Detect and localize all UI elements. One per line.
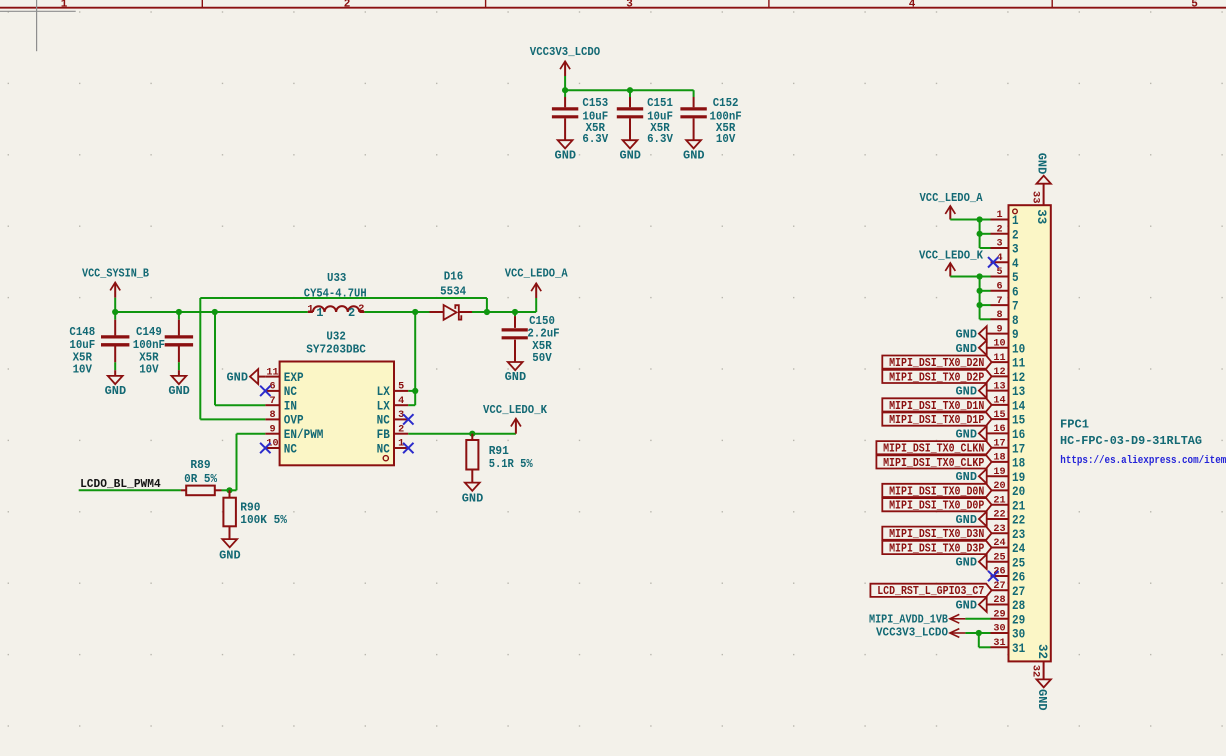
svg-text:16: 16 xyxy=(1012,427,1025,442)
U32 pin 8 OVP (left) xyxy=(265,409,303,428)
global label MIPI_DSI_TX0_D3N at pin 23 xyxy=(882,527,991,542)
junction pin5 xyxy=(977,273,983,279)
svg-text:100K 5%: 100K 5% xyxy=(240,513,287,527)
svg-text:GND: GND xyxy=(956,599,978,613)
svg-text:5: 5 xyxy=(398,381,404,393)
svg-text:22: 22 xyxy=(993,509,1005,521)
svg-text:FB: FB xyxy=(377,427,390,442)
svg-text:9: 9 xyxy=(1012,327,1019,342)
wire U33 to D16 xyxy=(364,311,429,313)
svg-text:13: 13 xyxy=(993,380,1005,392)
svg-text:VCC_SYSIN_B: VCC_SYSIN_B xyxy=(82,266,149,280)
svg-text:OVP: OVP xyxy=(284,413,304,428)
ground flag at pin 33 xyxy=(1035,153,1051,184)
svg-text:GND: GND xyxy=(956,328,978,342)
svg-text:C148: C148 xyxy=(69,325,95,339)
svg-text:7: 7 xyxy=(269,395,275,407)
svg-text:MIPI_DSI_TX0_D0P: MIPI_DSI_TX0_D0P xyxy=(889,500,984,513)
svg-text:VCC_LEDO_A: VCC_LEDO_A xyxy=(505,267,569,281)
FPC1 pin 29 xyxy=(991,609,1026,628)
svg-text:10V: 10V xyxy=(73,363,93,377)
svg-text:GND: GND xyxy=(956,513,978,527)
junction at C153 xyxy=(562,87,568,93)
FPC1 pin 6 xyxy=(991,281,1019,300)
svg-text:GND: GND xyxy=(105,384,127,398)
capacitor C149 xyxy=(133,312,193,377)
svg-text:GND: GND xyxy=(1035,689,1049,711)
svg-text:5534: 5534 xyxy=(440,285,466,298)
ground flag at pin 25 xyxy=(956,554,991,569)
junction pin1 xyxy=(977,216,983,222)
junction pin2 xyxy=(977,231,983,237)
svg-text:R89: R89 xyxy=(190,458,210,472)
svg-text:25: 25 xyxy=(993,551,1005,563)
svg-text:23: 23 xyxy=(993,523,1005,535)
svg-text:3: 3 xyxy=(626,0,633,10)
svg-text:28: 28 xyxy=(993,594,1005,606)
junction at R90 xyxy=(226,487,232,493)
svg-text:2: 2 xyxy=(344,0,351,10)
power symbol VCC_LEDO_A at pin 1 xyxy=(920,191,984,219)
capacitor C151 xyxy=(617,90,674,146)
svg-text:LX: LX xyxy=(377,384,390,399)
no-connect U32 pin 3 xyxy=(403,414,413,424)
svg-text:16: 16 xyxy=(993,423,1005,435)
wire LCDO_BL_PWM4 to R89 xyxy=(79,489,181,491)
FPC1 pin 8 xyxy=(991,309,1019,328)
svg-text:6.3V: 6.3V xyxy=(647,132,674,146)
svg-text:3: 3 xyxy=(1012,242,1019,257)
svg-text:NC: NC xyxy=(284,441,297,456)
FPC1 datasheet url xyxy=(1060,455,1226,467)
ground flag at pin 16 xyxy=(956,426,991,441)
svg-text:VCC3V3_LCDO: VCC3V3_LCDO xyxy=(530,45,600,59)
FPC1 pin 13 xyxy=(991,380,1026,399)
svg-text:1: 1 xyxy=(1012,213,1019,228)
junction at C148 xyxy=(112,309,118,315)
svg-text:MIPI_DSI_TX0_D3P: MIPI_DSI_TX0_D3P xyxy=(889,542,984,555)
svg-text:30: 30 xyxy=(993,623,1005,635)
wire R89 to node xyxy=(222,489,237,491)
wire top capacitor rail xyxy=(565,89,694,91)
wire LX pins to inductor node xyxy=(408,312,415,405)
svg-text:20: 20 xyxy=(993,480,1005,492)
svg-text:C152: C152 xyxy=(713,96,739,110)
U32 pin 11 EXP (left) xyxy=(265,366,303,385)
svg-text:17: 17 xyxy=(993,437,1005,449)
svg-text:MIPI_AVDD_1VB: MIPI_AVDD_1VB xyxy=(869,612,948,626)
power symbol VCC_LEDO_K at pin 5 xyxy=(919,249,984,277)
ground below C152 xyxy=(683,140,705,162)
global label MIPI_DSI_TX0_CLKP at pin 18 xyxy=(876,455,991,470)
ground below R90 xyxy=(219,539,241,562)
U32 pin 5 LX (right) xyxy=(377,381,409,400)
svg-text:VCC_LEDO_K: VCC_LEDO_K xyxy=(919,249,984,263)
svg-text:VCC_LEDO_K: VCC_LEDO_K xyxy=(483,403,548,417)
svg-text:3: 3 xyxy=(996,238,1002,250)
svg-text:11: 11 xyxy=(266,366,278,378)
ground flag at pin 19 xyxy=(956,469,991,484)
FPC1 pin 25 xyxy=(991,551,1026,570)
svg-text:10: 10 xyxy=(1012,341,1025,356)
capacitor C152 xyxy=(680,90,741,146)
FPC1 pin 21 xyxy=(991,494,1026,513)
global label MIPI_DSI_TX0_D0N at pin 20 xyxy=(882,484,991,499)
svg-text:HC-FPC-03-D9-31RLTAG: HC-FPC-03-D9-31RLTAG xyxy=(1060,434,1202,448)
svg-text:12: 12 xyxy=(993,366,1005,378)
U32 pin 10 NC (left) xyxy=(265,438,297,457)
svg-text:21: 21 xyxy=(1012,498,1025,513)
cursor crosshair top-left xyxy=(0,0,76,51)
svg-text:IN: IN xyxy=(284,399,297,414)
svg-text:10: 10 xyxy=(993,338,1005,350)
svg-text:1: 1 xyxy=(996,209,1002,221)
svg-text:LX: LX xyxy=(377,399,390,414)
wire VCC_SYSIN_B to rail xyxy=(114,298,116,312)
power symbol VCC_LEDO_A xyxy=(505,267,569,298)
svg-text:15: 15 xyxy=(1012,413,1025,428)
no-connect U32 pin 10 xyxy=(260,443,270,453)
svg-text:LCD_RST_L_GPIO3_C7: LCD_RST_L_GPIO3_C7 xyxy=(877,585,984,598)
svg-text:21: 21 xyxy=(993,494,1005,506)
FPC1 pin 15 xyxy=(991,409,1026,428)
svg-text:https://es.aliexpress.com/item: https://es.aliexpress.com/item xyxy=(1060,455,1226,467)
wire pin5 bus xyxy=(950,277,990,320)
FPC1 pin 7 xyxy=(991,295,1019,314)
FPC1 pin 31 xyxy=(991,637,1026,656)
svg-text:2: 2 xyxy=(996,224,1002,236)
svg-text:8: 8 xyxy=(1012,313,1019,328)
svg-text:C153: C153 xyxy=(582,96,608,110)
junction pin30 xyxy=(976,630,982,636)
svg-text:27: 27 xyxy=(993,580,1005,592)
FPC1 pin 24 xyxy=(991,537,1026,556)
svg-text:10V: 10V xyxy=(716,132,736,146)
svg-text:GND: GND xyxy=(505,370,527,384)
FPC1 pin 11 xyxy=(991,352,1026,371)
svg-text:33: 33 xyxy=(1030,191,1042,204)
FPC1 pin 26 xyxy=(991,566,1026,585)
FPC1 pin 9 xyxy=(991,323,1019,342)
svg-text:12: 12 xyxy=(1012,370,1025,385)
FPC1 pin 32 (bottom) xyxy=(1029,644,1050,679)
junction LX pin 5 xyxy=(412,388,418,394)
resistor R90 xyxy=(223,490,287,539)
svg-text:32: 32 xyxy=(1029,665,1041,678)
svg-text:20: 20 xyxy=(1012,484,1025,499)
svg-text:17: 17 xyxy=(1012,441,1025,456)
svg-text:31: 31 xyxy=(1012,641,1025,656)
no-connect U32 pin 6 xyxy=(260,386,270,396)
wire FB to VCC_LEDO_K xyxy=(408,433,516,435)
FPC1 pin 17 xyxy=(991,437,1026,456)
resistor R91 xyxy=(466,434,533,483)
FPC1 pin 19 xyxy=(991,466,1026,485)
wire C149 to ground xyxy=(178,362,180,370)
ground flag at pin 9 xyxy=(956,326,991,341)
svg-text:1: 1 xyxy=(307,304,313,316)
U32 pin 1 NC (right) xyxy=(377,438,409,457)
svg-text:LCDO_BL_PWM4: LCDO_BL_PWM4 xyxy=(80,477,161,491)
svg-text:5: 5 xyxy=(1191,0,1198,10)
ground flag at pin 22 xyxy=(956,512,991,527)
FPC1 pin 1 xyxy=(991,209,1019,228)
svg-text:2: 2 xyxy=(348,306,355,320)
diode D16 5534 (Schottky) xyxy=(430,271,473,320)
wire D16 cathode to VCC_LEDO_A node xyxy=(472,311,536,313)
svg-text:8: 8 xyxy=(996,309,1002,321)
svg-text:GND: GND xyxy=(555,148,577,162)
FPC1 pin 30 xyxy=(991,623,1026,642)
FPC1 pin 16 xyxy=(991,423,1026,442)
FPC1 pin 5 xyxy=(991,266,1019,285)
svg-text:29: 29 xyxy=(1012,612,1025,627)
junction at IN branch xyxy=(212,309,218,315)
svg-text:2: 2 xyxy=(358,303,364,315)
svg-text:25: 25 xyxy=(1012,555,1025,570)
svg-text:MIPI_DSI_TX0_D1N: MIPI_DSI_TX0_D1N xyxy=(889,400,984,413)
svg-text:NC: NC xyxy=(377,441,390,456)
svg-text:MIPI_DSI_TX0_CLKP: MIPI_DSI_TX0_CLKP xyxy=(883,457,984,470)
U32 pin 9 EN/PWM (left) xyxy=(265,423,323,442)
svg-text:24: 24 xyxy=(1012,541,1025,556)
U32 pin 6 NC (left) xyxy=(265,381,297,400)
svg-text:MIPI_DSI_TX0_D2P: MIPI_DSI_TX0_D2P xyxy=(889,371,984,384)
svg-text:5: 5 xyxy=(996,266,1002,278)
ground below C150 xyxy=(505,362,527,384)
svg-text:C149: C149 xyxy=(136,325,162,339)
junction at C149 xyxy=(176,309,182,315)
ground below C151 xyxy=(619,140,641,162)
power symbol VCC_SYSIN_B xyxy=(82,266,149,297)
svg-text:GND: GND xyxy=(619,148,641,162)
wire pin29 xyxy=(965,618,990,620)
svg-text:8: 8 xyxy=(269,409,275,421)
svg-text:9: 9 xyxy=(996,323,1002,335)
sheet frame top border xyxy=(0,0,1226,10)
wire EN/PWM pin down to R89 node xyxy=(237,434,266,491)
svg-text:4: 4 xyxy=(398,395,404,407)
svg-text:7: 7 xyxy=(1012,299,1019,314)
power symbol VCC_LEDO_K xyxy=(483,403,548,434)
svg-text:18: 18 xyxy=(1012,456,1025,471)
wire pin1 bus xyxy=(950,220,990,249)
svg-text:GND: GND xyxy=(462,491,484,505)
connector FPC1 body xyxy=(1009,205,1051,661)
wire IN pin to rail xyxy=(215,312,265,405)
junction at C151 xyxy=(627,87,633,93)
capacitor C153 xyxy=(552,90,609,146)
svg-text:14: 14 xyxy=(993,395,1005,407)
junction LX branch xyxy=(412,309,418,315)
net label LCDO_BL_PWM4 xyxy=(80,477,161,491)
FPC1 pin 3 xyxy=(991,238,1019,257)
svg-text:33: 33 xyxy=(1034,209,1049,224)
svg-text:28: 28 xyxy=(1012,598,1025,613)
svg-text:9: 9 xyxy=(269,423,275,435)
svg-text:1: 1 xyxy=(61,0,68,10)
FPC1 pin 20 xyxy=(991,480,1026,499)
junction at C150 xyxy=(512,309,518,315)
svg-text:13: 13 xyxy=(1012,384,1025,399)
svg-text:C151: C151 xyxy=(647,96,673,110)
ground flag at pin 10 xyxy=(956,340,991,355)
ground flag at U32 EXP pin xyxy=(227,369,266,384)
hierarchical label MIPI_AVDD_1VB at pin 29 xyxy=(869,612,965,626)
FPC1 pin 22 xyxy=(991,509,1026,528)
global label MIPI_DSI_TX0_D1P at pin 15 xyxy=(882,413,991,428)
svg-text:MIPI_DSI_TX0_D2N: MIPI_DSI_TX0_D2N xyxy=(889,357,984,370)
FPC1 pin 10 xyxy=(991,338,1026,357)
no-connect pin 4 xyxy=(988,257,998,267)
svg-text:24: 24 xyxy=(993,537,1005,549)
svg-text:GND: GND xyxy=(956,342,978,356)
global label MIPI_DSI_TX0_D1N at pin 14 xyxy=(882,398,991,413)
global label MIPI_DSI_TX0_D0P at pin 21 xyxy=(882,498,991,512)
svg-text:SY7203DBC: SY7203DBC xyxy=(306,343,366,356)
global label LCD_RST_L_GPIO3_C7 at pin 27 xyxy=(870,584,991,599)
wire VCC_LEDO_A riser xyxy=(535,298,537,312)
svg-text:26: 26 xyxy=(1012,570,1025,585)
junction pin7 xyxy=(977,302,983,308)
svg-text:6: 6 xyxy=(996,281,1002,293)
junction at R91 xyxy=(469,431,475,437)
svg-text:26: 26 xyxy=(993,566,1005,578)
U32 pin 4 LX (right) xyxy=(377,395,409,414)
svg-text:15: 15 xyxy=(993,409,1005,421)
svg-text:MIPI_DSI_TX0_CLKN: MIPI_DSI_TX0_CLKN xyxy=(883,443,984,456)
power symbol VCC3V3_LCDO xyxy=(530,45,600,76)
svg-text:GND: GND xyxy=(227,370,249,384)
FPC1 reference fields xyxy=(1060,418,1202,449)
svg-text:VCC3V3_LCDO: VCC3V3_LCDO xyxy=(876,626,948,640)
ground below R91 xyxy=(462,483,484,506)
svg-text:32: 32 xyxy=(1035,644,1050,659)
svg-text:5.1R 5%: 5.1R 5% xyxy=(489,457,534,471)
FPC1 pin 12 xyxy=(991,366,1026,385)
hierarchical label VCC3V3_LCDO at pin 30 xyxy=(876,626,965,640)
global label MIPI_DSI_TX0_CLKN at pin 17 xyxy=(876,441,991,456)
FPC1 pin 18 xyxy=(991,452,1026,471)
svg-text:29: 29 xyxy=(993,609,1005,621)
svg-text:GND: GND xyxy=(168,384,190,398)
svg-text:5: 5 xyxy=(1012,270,1019,285)
svg-text:GND: GND xyxy=(956,470,978,484)
svg-text:19: 19 xyxy=(993,466,1005,478)
junction OVP feedback xyxy=(484,309,490,315)
ground flag at pin 28 xyxy=(956,597,991,612)
svg-text:6: 6 xyxy=(1012,284,1019,299)
svg-text:1: 1 xyxy=(316,306,323,320)
FPC1 pin 14 xyxy=(991,395,1026,414)
global label MIPI_DSI_TX0_D2P at pin 12 xyxy=(882,370,991,385)
svg-text:11: 11 xyxy=(1012,356,1025,371)
IC U32 SY7203DBC body xyxy=(280,331,394,466)
svg-text:2: 2 xyxy=(1012,227,1019,242)
svg-text:MIPI_DSI_TX0_D0N: MIPI_DSI_TX0_D0N xyxy=(889,485,984,498)
capacitor C148 xyxy=(69,312,129,377)
svg-text:0R 5%: 0R 5% xyxy=(184,472,218,486)
ground below C153 xyxy=(555,140,577,162)
svg-text:U33: U33 xyxy=(327,272,346,285)
svg-text:7: 7 xyxy=(996,295,1002,307)
svg-text:MIPI_DSI_TX0_D1P: MIPI_DSI_TX0_D1P xyxy=(889,414,984,427)
svg-text:MIPI_DSI_TX0_D3N: MIPI_DSI_TX0_D3N xyxy=(889,528,984,541)
svg-text:FPC1: FPC1 xyxy=(1060,418,1089,432)
FPC1 pin 33 (top) xyxy=(1030,184,1050,225)
no-connect pin 26 xyxy=(988,571,998,581)
svg-text:EXP: EXP xyxy=(284,370,304,385)
ground flag at pin 32 xyxy=(1035,679,1051,710)
svg-text:30: 30 xyxy=(1012,627,1025,642)
global label MIPI_DSI_TX0_D3P at pin 24 xyxy=(882,541,991,556)
svg-text:4: 4 xyxy=(1012,256,1019,271)
wire pin30 and pin31 xyxy=(965,633,990,647)
ground below C148 xyxy=(105,370,127,398)
svg-text:NC: NC xyxy=(377,413,390,428)
wire VCC3V3_LCDO to rail xyxy=(564,76,566,90)
svg-text:50V: 50V xyxy=(532,351,552,365)
ground below C149 xyxy=(168,370,190,398)
svg-text:GND: GND xyxy=(219,549,241,563)
FPC1 pin 23 xyxy=(991,523,1026,542)
svg-text:14: 14 xyxy=(1012,399,1025,414)
svg-text:D16: D16 xyxy=(444,271,463,284)
svg-text:2: 2 xyxy=(398,423,404,435)
FPC1 pin 2 xyxy=(991,224,1019,243)
svg-text:GND: GND xyxy=(956,556,978,570)
svg-text:R91: R91 xyxy=(489,444,509,458)
resistor R89 xyxy=(181,458,222,495)
no-connect U32 pin 1 xyxy=(403,443,413,453)
svg-text:27: 27 xyxy=(1012,584,1025,599)
svg-text:31: 31 xyxy=(993,637,1005,649)
U32 pin 2 FB (right) xyxy=(377,423,409,442)
svg-text:U32: U32 xyxy=(326,331,345,344)
svg-text:GND: GND xyxy=(956,427,978,441)
svg-text:VCC_LEDO_A: VCC_LEDO_A xyxy=(920,191,984,205)
wire C148 to ground xyxy=(114,362,116,370)
FPC1 pin 27 xyxy=(991,580,1026,599)
capacitor C150 xyxy=(502,312,560,365)
svg-text:6.3V: 6.3V xyxy=(582,132,609,146)
inductor U33 CY54-4.7UH xyxy=(304,272,367,320)
svg-text:22: 22 xyxy=(1012,513,1025,528)
svg-text:EN/PWM: EN/PWM xyxy=(284,427,324,442)
svg-text:CY54-4.7UH: CY54-4.7UH xyxy=(304,288,367,301)
U32 pin 3 NC (right) xyxy=(377,409,409,428)
svg-text:GND: GND xyxy=(956,385,978,399)
ground flag at pin 13 xyxy=(956,383,991,398)
svg-text:23: 23 xyxy=(1012,527,1025,542)
svg-text:GND: GND xyxy=(683,148,705,162)
svg-text:10V: 10V xyxy=(139,363,159,377)
svg-text:4: 4 xyxy=(909,0,916,10)
junction pin6 xyxy=(977,288,983,294)
FPC1 pin 28 xyxy=(991,594,1026,613)
wire OVP pin loop to diode output xyxy=(200,298,487,419)
svg-text:NC: NC xyxy=(284,384,297,399)
global label MIPI_DSI_TX0_D2N at pin 11 xyxy=(882,356,991,371)
svg-text:18: 18 xyxy=(993,452,1005,464)
wire main input rail xyxy=(115,311,308,313)
FPC1 pin 4 xyxy=(991,252,1019,271)
svg-text:GND: GND xyxy=(1035,153,1049,175)
U32 pin 7 IN (left) xyxy=(265,395,297,414)
svg-text:11: 11 xyxy=(993,352,1005,364)
svg-text:19: 19 xyxy=(1012,470,1025,485)
